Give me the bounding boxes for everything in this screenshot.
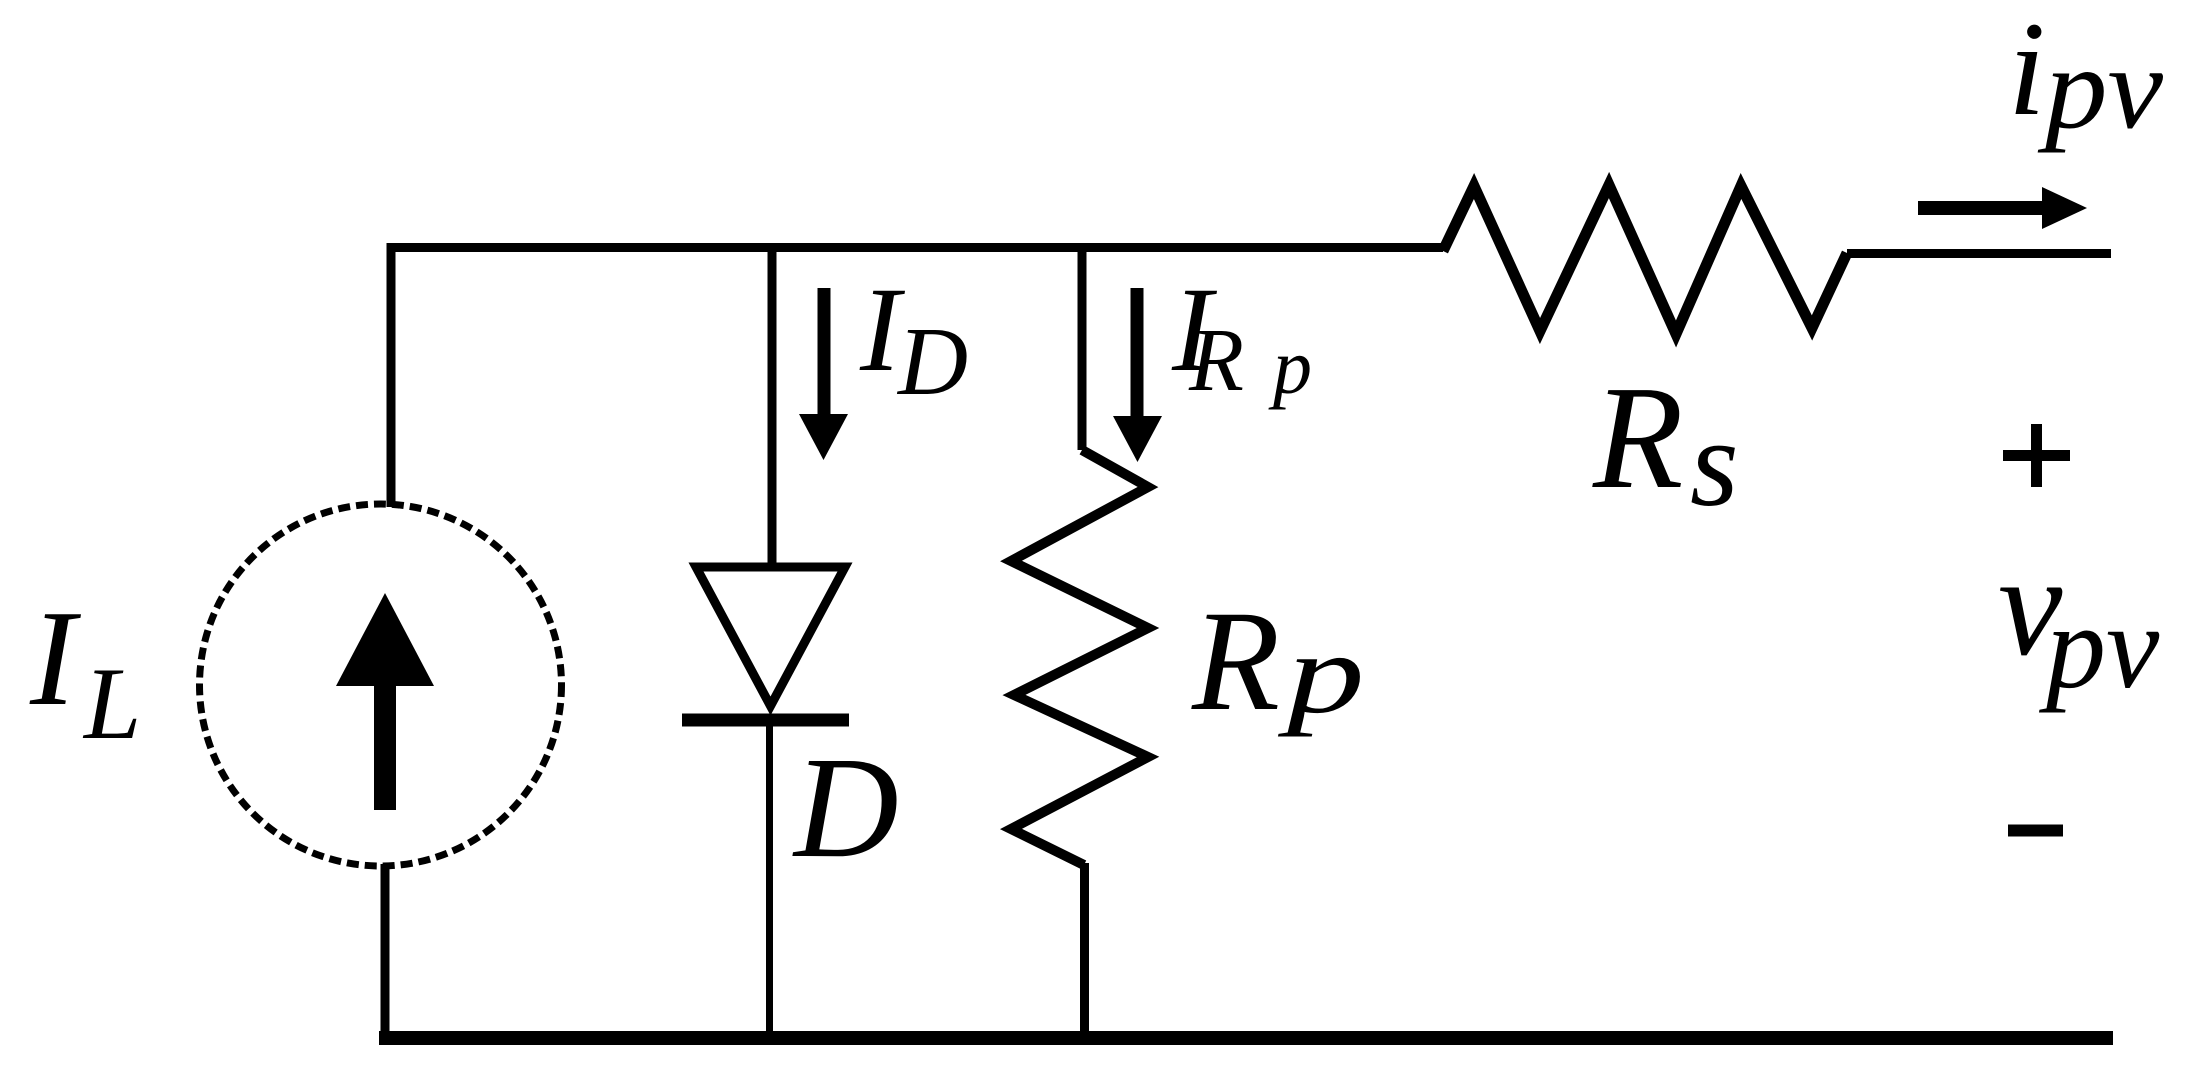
svg-text:pv: pv: [2037, 24, 2163, 154]
svg-text:i: i: [2008, 0, 2046, 144]
svg-text:L: L: [82, 647, 141, 761]
svg-text:I: I: [29, 582, 81, 734]
svg-text:pv: pv: [2038, 580, 2160, 713]
svg-text:p: p: [1268, 323, 1312, 410]
svg-text:R: R: [1188, 311, 1244, 410]
svg-text:R: R: [1191, 582, 1280, 741]
svg-text:s: s: [1690, 395, 1739, 533]
svg-text:R: R: [1592, 356, 1683, 520]
svg-text:D: D: [792, 728, 899, 888]
svg-text:D: D: [896, 308, 968, 415]
svg-text:p: p: [1278, 609, 1365, 737]
